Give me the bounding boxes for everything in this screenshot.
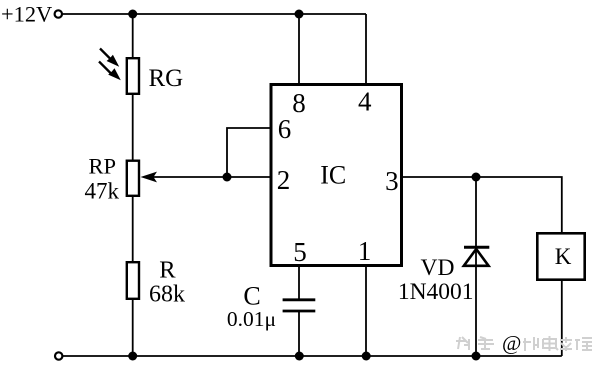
svg-text:IC: IC <box>320 160 346 189</box>
svg-text:8: 8 <box>292 88 306 118</box>
svg-text:+12V: +12V <box>1 2 52 27</box>
svg-text:0.01μ: 0.01μ <box>227 307 276 331</box>
svg-text:K: K <box>555 244 572 269</box>
svg-text:R: R <box>159 256 176 283</box>
svg-text:RG: RG <box>149 65 184 92</box>
svg-text:4: 4 <box>358 87 372 117</box>
svg-text:VD: VD <box>421 255 455 281</box>
svg-text:1: 1 <box>358 236 372 266</box>
svg-text:5: 5 <box>293 237 307 267</box>
svg-text:RP: RP <box>88 154 116 179</box>
svg-text:68k: 68k <box>149 282 185 308</box>
svg-text:@: @ <box>502 331 521 355</box>
svg-text:3: 3 <box>385 166 399 196</box>
svg-text:2: 2 <box>277 165 291 195</box>
svg-text:47k: 47k <box>85 178 120 203</box>
svg-text:6: 6 <box>278 114 292 144</box>
svg-text:1N4001: 1N4001 <box>398 279 474 305</box>
